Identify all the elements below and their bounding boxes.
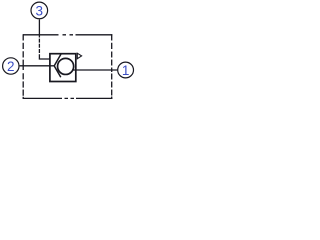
svg-text:3: 3 xyxy=(36,3,44,18)
check valve seat xyxy=(54,54,61,77)
port 1 wire xyxy=(72,69,117,71)
port 3 elbow wire to valve body xyxy=(39,54,49,59)
envelope left border (dashed) xyxy=(22,34,24,99)
port 2 wire xyxy=(20,65,55,67)
svg-text:1: 1 xyxy=(122,63,130,78)
svg-text:2: 2 xyxy=(7,59,15,74)
valve body box xyxy=(50,54,76,82)
check valve ball xyxy=(58,58,74,74)
envelope top border (dashed) xyxy=(23,34,112,36)
envelope bottom border (dashed) xyxy=(23,97,112,99)
port 3 line (solid from port circle to envelope) xyxy=(38,19,40,37)
port 1 circle xyxy=(118,62,134,78)
port 2 circle xyxy=(3,58,19,74)
port 3 pilot line (dashed inside envelope) xyxy=(38,39,40,53)
port 3 circle xyxy=(31,2,48,19)
envelope right border (dashed) xyxy=(111,34,113,99)
free flow triangle xyxy=(77,53,81,59)
